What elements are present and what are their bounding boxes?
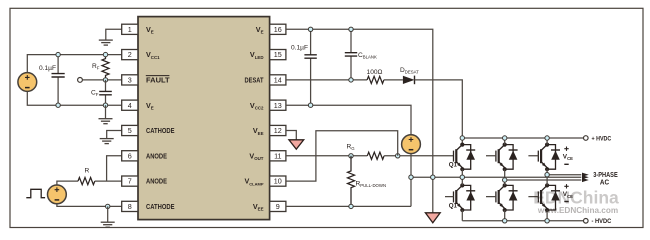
junction <box>396 154 400 158</box>
pin 12 <box>253 125 286 135</box>
junction <box>106 204 110 208</box>
ground <box>101 222 115 227</box>
wire pin1 to ground <box>106 29 122 40</box>
junction <box>349 204 353 208</box>
junction <box>56 103 60 107</box>
junction <box>545 219 549 223</box>
svg-text:R: R <box>85 168 90 175</box>
wire VE rail pin16 <box>286 29 433 212</box>
wire VCLAMP pin10 <box>286 131 398 181</box>
wire FAULT <box>82 79 121 81</box>
junction <box>431 175 435 179</box>
label VCE bottom <box>563 184 573 201</box>
svg-text:CF: CF <box>91 90 99 98</box>
capacitor CBLANK <box>345 29 357 80</box>
svg-text:15: 15 <box>274 50 282 59</box>
svg-text:RPULL-DOWN: RPULL-DOWN <box>356 181 387 189</box>
svg-text:1: 1 <box>128 25 132 34</box>
svg-text:CBLANK: CBLANK <box>358 52 377 60</box>
wire <box>384 79 403 81</box>
svg-text:ANODE: ANODE <box>146 177 167 186</box>
resistor 100ohm <box>367 76 384 83</box>
pin 5 <box>122 125 175 135</box>
wire VEE pin9 <box>286 205 411 207</box>
svg-text:7: 7 <box>128 177 132 186</box>
ground <box>99 119 113 124</box>
svg-text:+ HVDC: + HVDC <box>592 135 612 142</box>
resistor RG <box>367 152 384 159</box>
wire pin5 to ground <box>107 131 122 139</box>
wire VEE pin12 stub <box>286 131 296 140</box>
transistor Q2 top middle <box>486 138 518 180</box>
wire +HVDC rail <box>462 137 583 139</box>
pin 6 <box>122 151 167 161</box>
pin 10 <box>244 176 285 186</box>
junction <box>349 27 353 31</box>
resistor RF <box>102 55 109 80</box>
resistor R <box>78 178 95 185</box>
label VCE top <box>563 147 573 165</box>
wire bottom rail GND1 <box>27 92 121 106</box>
svg-text:14: 14 <box>274 76 282 85</box>
wire R to pin7 <box>95 180 122 182</box>
pin 16 <box>256 24 286 34</box>
svg-text:13: 13 <box>274 101 282 110</box>
junction <box>56 52 60 56</box>
watermark <box>533 188 619 215</box>
svg-text:2: 2 <box>128 50 132 59</box>
svg-text:www.EDNChina.com: www.EDNChina.com <box>537 206 618 215</box>
pin 9 <box>253 201 286 211</box>
pin 11 <box>249 151 285 161</box>
svg-text:0.1µF: 0.1µF <box>39 65 56 72</box>
wire phase A <box>547 174 581 176</box>
svg-text:3-PHASE: 3-PHASE <box>593 172 618 179</box>
junction <box>460 175 464 179</box>
node +HVDC terminal <box>584 136 589 141</box>
pin 13 <box>250 100 286 110</box>
junction <box>103 103 107 107</box>
junction <box>349 154 353 158</box>
junction <box>103 52 107 56</box>
wire phase C <box>505 179 582 181</box>
junction <box>460 136 464 140</box>
voltage source V3 VCC2 <box>402 135 421 154</box>
svg-text:12: 12 <box>274 126 282 135</box>
svg-text:4: 4 <box>128 101 132 110</box>
transistor Q4 bottom left <box>445 177 475 221</box>
pin 15 <box>250 50 286 60</box>
junction <box>503 136 507 140</box>
node -HVDC terminal <box>584 219 589 224</box>
op-amp/gate-driver IC U1 body <box>138 17 270 220</box>
wire DESAT to bridge <box>415 80 463 145</box>
junction <box>503 178 507 182</box>
wire source to pin8 <box>57 204 122 207</box>
pin 3 <box>122 75 171 85</box>
-HVDC reference symbol <box>425 213 440 223</box>
svg-text:6: 6 <box>128 151 132 160</box>
junction <box>503 219 507 223</box>
junction <box>545 136 549 140</box>
pulse input glyph <box>26 189 45 197</box>
-HVDC reference symbol <box>289 140 304 149</box>
pin 1 <box>122 24 154 34</box>
wire top rail VCC1 <box>27 55 121 73</box>
transistor Q5 bottom middle <box>486 180 518 221</box>
svg-text:Q1: Q1 <box>449 162 458 169</box>
junction <box>308 103 312 107</box>
svg-text:0.1µF: 0.1µF <box>291 44 308 51</box>
svg-text:Q1: Q1 <box>449 203 458 210</box>
wire source to VEE line <box>410 154 412 207</box>
voltage source V1 <box>18 73 37 92</box>
ground <box>100 139 114 144</box>
svg-text:VCE: VCE <box>563 154 573 162</box>
pin 8 <box>122 201 175 211</box>
wire VOUT pin11 <box>286 155 367 157</box>
pin 14 <box>245 75 286 85</box>
wire source to R <box>57 181 78 185</box>
wire anode branch to pin6 <box>107 156 122 181</box>
junction <box>545 173 549 177</box>
wire phase B <box>411 176 581 178</box>
wire -HVDC rail <box>462 220 583 222</box>
wire VCC2 pin13 <box>286 105 411 135</box>
junction <box>409 175 413 179</box>
svg-text:8: 8 <box>128 202 132 211</box>
svg-text:5: 5 <box>128 126 132 135</box>
transistor Q3 top right <box>528 138 560 175</box>
capacitor C2 0.1uF <box>304 29 316 105</box>
svg-text:3: 3 <box>128 76 132 85</box>
svg-text:16: 16 <box>274 25 282 34</box>
resistor RPULL-DOWN <box>348 156 355 207</box>
svg-text:CATHODE: CATHODE <box>146 202 175 211</box>
svg-text:9: 9 <box>276 202 280 211</box>
wire gate line <box>384 155 453 157</box>
svg-text:RG: RG <box>347 144 356 152</box>
svg-text:10: 10 <box>274 177 282 186</box>
phase arrowheads <box>582 173 589 183</box>
svg-text:AC: AC <box>600 180 609 187</box>
capacitor C1 0.1uF <box>52 55 65 106</box>
node FAULT terminal <box>78 78 83 83</box>
svg-text:DDESAT: DDESAT <box>400 67 419 75</box>
wire ground stem <box>107 206 109 222</box>
wire DESAT pin14 <box>286 79 367 81</box>
svg-text:RF: RF <box>92 63 100 71</box>
svg-text:100Ω: 100Ω <box>367 69 383 76</box>
junction <box>308 27 312 31</box>
pin 4 <box>122 100 154 110</box>
svg-text:11: 11 <box>274 151 281 160</box>
svg-text:DESAT: DESAT <box>245 76 264 85</box>
pulse source V2 <box>48 185 67 204</box>
svg-text:EDNChina: EDNChina <box>533 188 619 208</box>
junction <box>349 78 353 82</box>
svg-text:FAULT: FAULT <box>146 76 170 85</box>
transistor Q6 bottom right <box>528 175 560 221</box>
svg-text:CATHODE: CATHODE <box>146 126 175 135</box>
capacitor CF <box>99 80 112 105</box>
ground <box>99 40 113 45</box>
wire ground stem <box>105 105 107 118</box>
pin 7 <box>122 176 167 186</box>
pin 2 <box>122 50 160 60</box>
diode DDESAT <box>403 76 415 85</box>
svg-text:ANODE: ANODE <box>146 151 167 160</box>
junction <box>103 78 107 82</box>
transistor Q1 top <box>454 143 476 178</box>
svg-text:- HVDC: - HVDC <box>592 218 612 225</box>
